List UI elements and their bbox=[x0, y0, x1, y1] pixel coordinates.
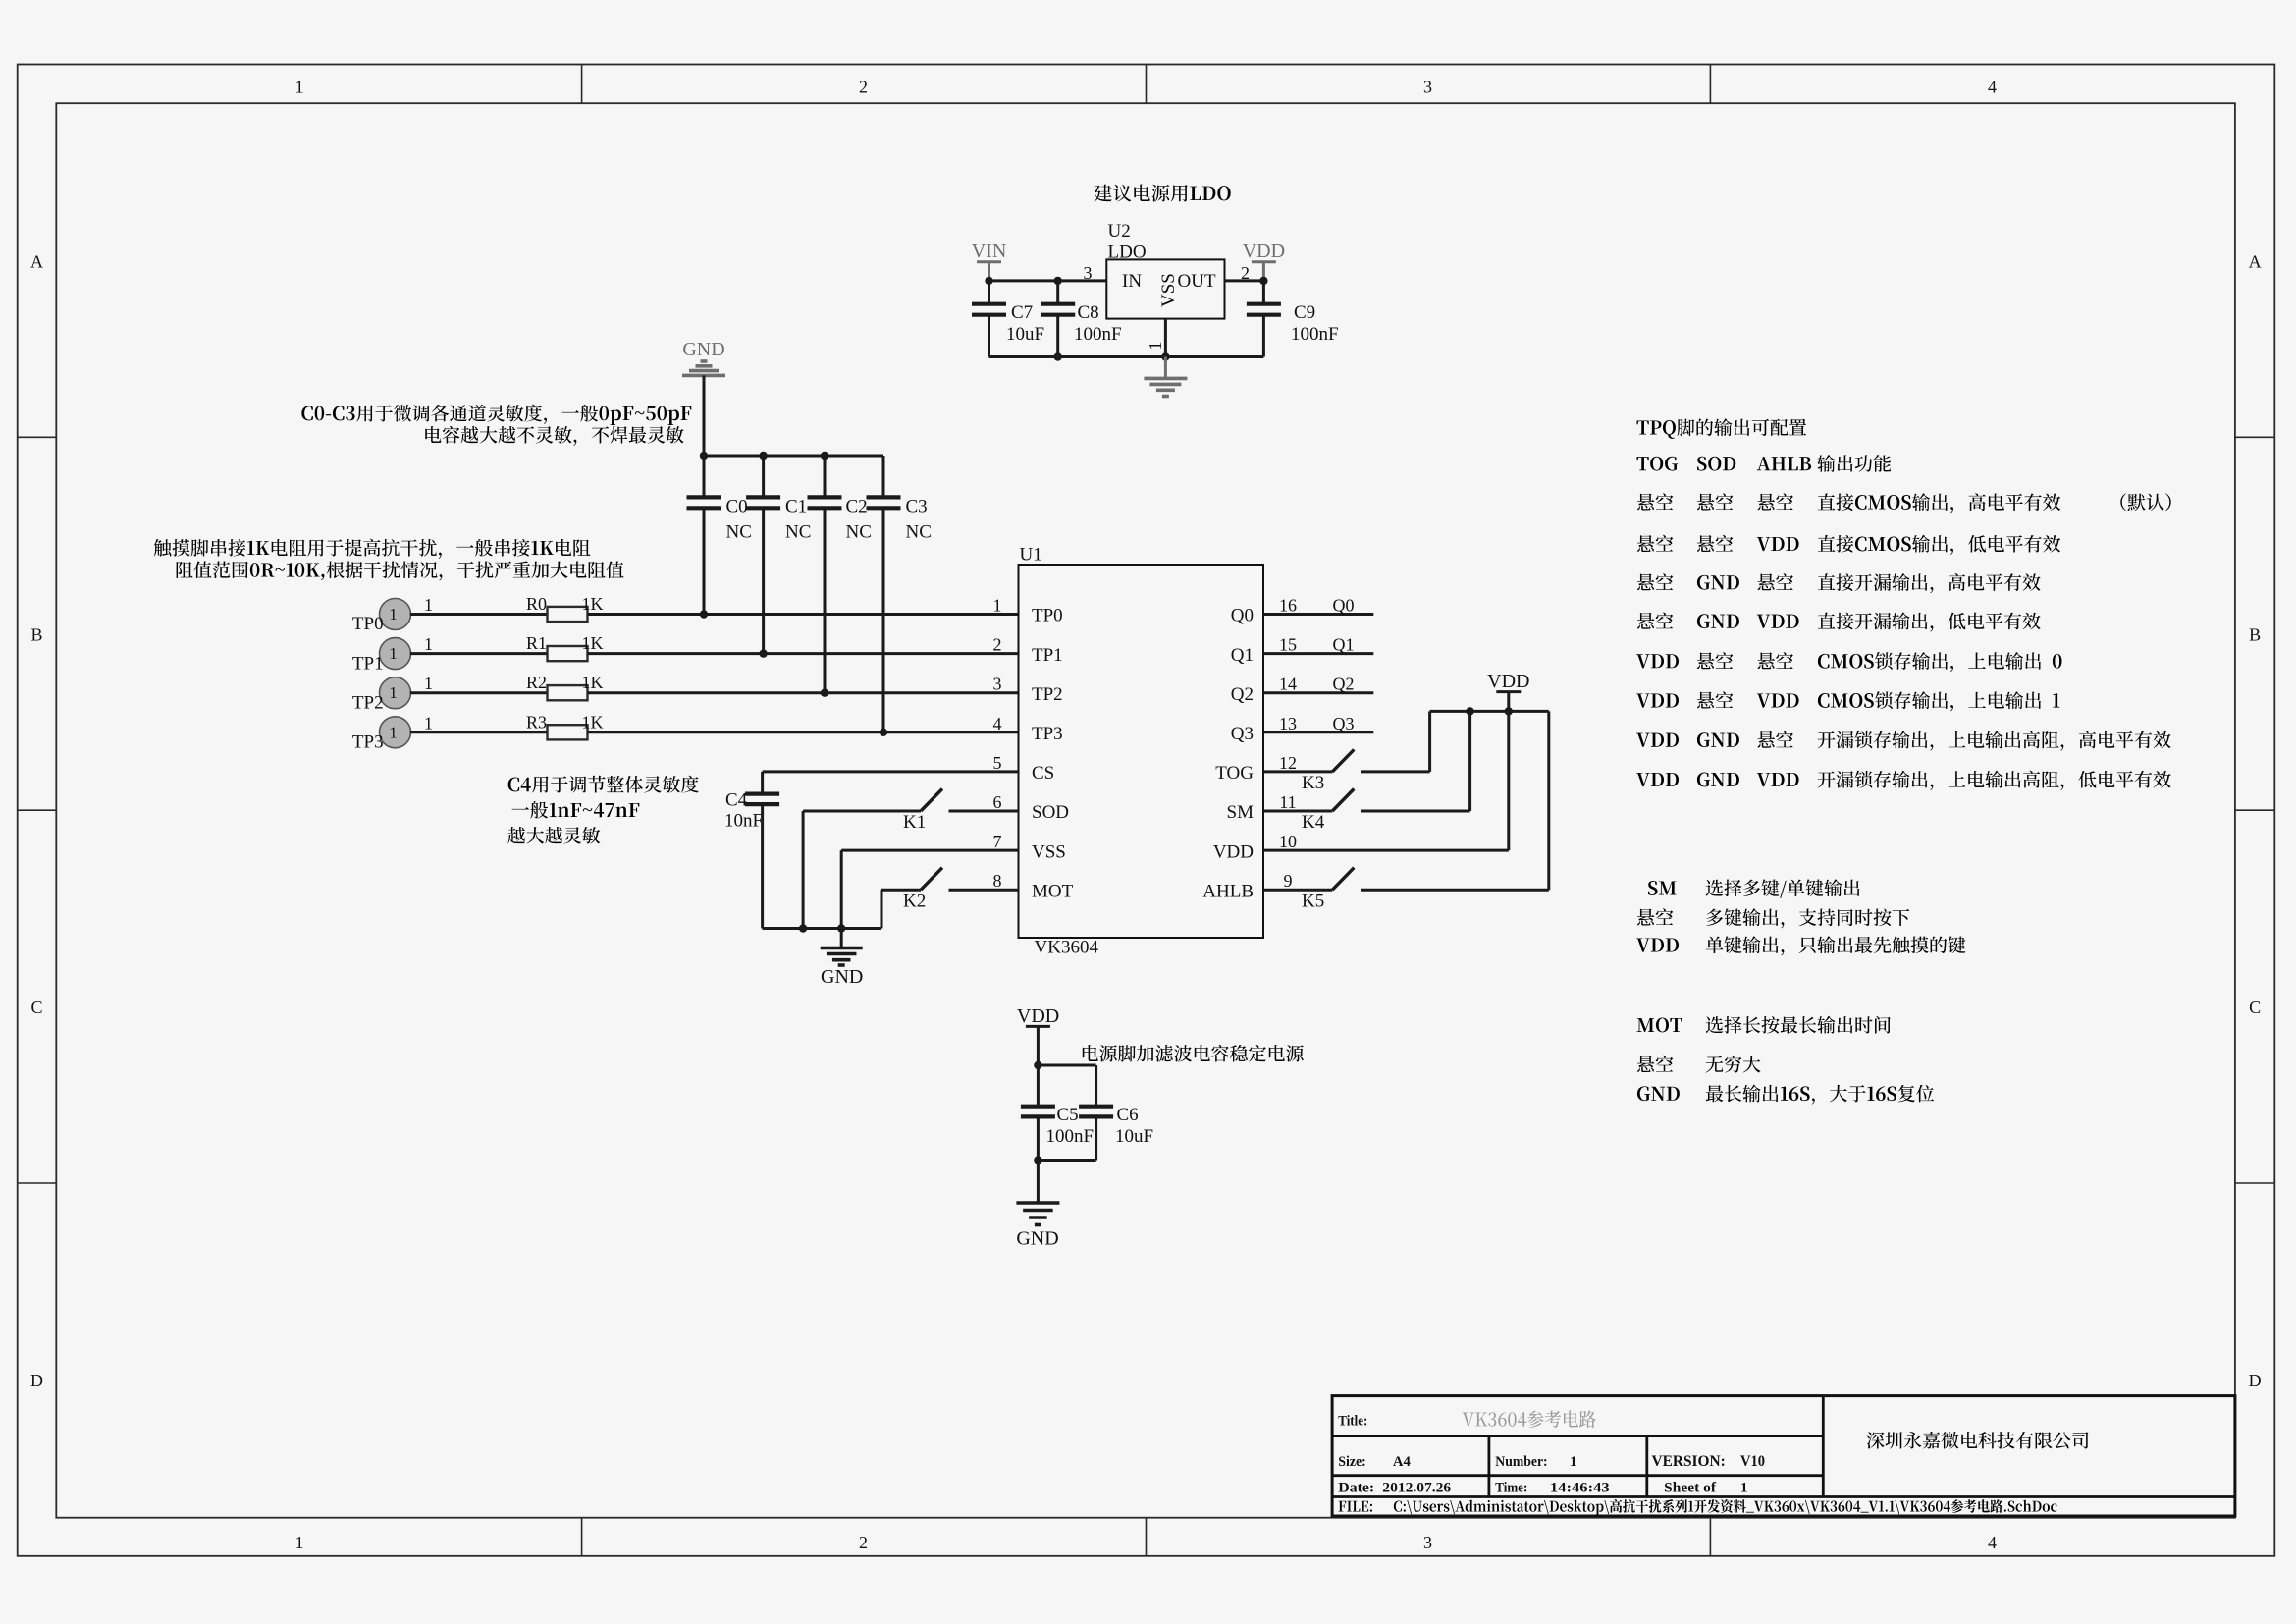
svg-text:14:46:43: 14:46:43 bbox=[1550, 1481, 1610, 1496]
svg-text:K2: K2 bbox=[903, 891, 926, 911]
svg-text:5: 5 bbox=[993, 753, 1002, 773]
svg-text:Q3: Q3 bbox=[1231, 724, 1254, 744]
svg-text:VSS: VSS bbox=[1158, 273, 1179, 307]
svg-text:VDD: VDD bbox=[1213, 841, 1254, 862]
svg-text:V10: V10 bbox=[1740, 1453, 1765, 1470]
svg-text:2: 2 bbox=[859, 1533, 868, 1552]
svg-text:TP3: TP3 bbox=[1032, 724, 1063, 744]
svg-text:7: 7 bbox=[993, 832, 1002, 851]
svg-text:4: 4 bbox=[1988, 78, 1997, 97]
svg-text:C: C bbox=[30, 998, 42, 1017]
svg-text:NC: NC bbox=[906, 522, 932, 543]
svg-text:1: 1 bbox=[993, 596, 1002, 616]
svg-text:10nF: 10nF bbox=[724, 811, 763, 832]
svg-text:100nF: 100nF bbox=[1074, 324, 1122, 345]
svg-text:1: 1 bbox=[424, 713, 433, 732]
svg-text:1: 1 bbox=[389, 723, 398, 741]
svg-text:CS: CS bbox=[1032, 763, 1054, 784]
svg-text:6: 6 bbox=[993, 792, 1002, 812]
svg-text:10: 10 bbox=[1279, 832, 1297, 851]
svg-text:U2: U2 bbox=[1108, 221, 1131, 242]
svg-text:VDD: VDD bbox=[1243, 241, 1285, 262]
svg-text:Sheet of: Sheet of bbox=[1664, 1481, 1717, 1496]
svg-text:1: 1 bbox=[424, 595, 433, 615]
svg-text:9: 9 bbox=[1284, 871, 1293, 891]
svg-text:1: 1 bbox=[424, 674, 433, 693]
svg-text:2: 2 bbox=[859, 78, 868, 97]
svg-text:Size:: Size: bbox=[1338, 1454, 1366, 1470]
svg-text:TP1: TP1 bbox=[1032, 645, 1063, 666]
svg-text:GND: GND bbox=[1016, 1228, 1058, 1250]
svg-text:1K: 1K bbox=[582, 594, 604, 614]
svg-text:12: 12 bbox=[1279, 753, 1297, 773]
svg-text:TP0: TP0 bbox=[1032, 606, 1063, 626]
svg-text:IN: IN bbox=[1122, 271, 1142, 292]
svg-text:1: 1 bbox=[389, 683, 398, 702]
svg-text:Date:: Date: bbox=[1338, 1481, 1374, 1496]
svg-text:VIN: VIN bbox=[972, 241, 1007, 262]
svg-text:10uF: 10uF bbox=[1115, 1126, 1153, 1147]
svg-text:U1: U1 bbox=[1020, 545, 1042, 566]
svg-text:16: 16 bbox=[1279, 596, 1297, 616]
svg-text:1: 1 bbox=[1740, 1481, 1748, 1496]
svg-text:NC: NC bbox=[846, 522, 872, 543]
svg-text:1K: 1K bbox=[582, 712, 604, 731]
svg-text:R1: R1 bbox=[526, 633, 547, 653]
svg-text:MOT: MOT bbox=[1032, 881, 1074, 901]
svg-text:TP1: TP1 bbox=[352, 653, 384, 674]
svg-text:VK3604: VK3604 bbox=[1035, 938, 1099, 958]
svg-text:C7: C7 bbox=[1011, 302, 1033, 323]
svg-text:K1: K1 bbox=[903, 812, 926, 833]
svg-text:1: 1 bbox=[295, 1533, 304, 1552]
svg-text:TP3: TP3 bbox=[352, 732, 384, 753]
svg-text:TP2: TP2 bbox=[352, 692, 384, 713]
svg-text:NC: NC bbox=[726, 522, 752, 543]
svg-text:R3: R3 bbox=[526, 712, 547, 731]
svg-text:D: D bbox=[30, 1371, 43, 1390]
svg-text:Q0: Q0 bbox=[1333, 596, 1355, 616]
svg-text:1: 1 bbox=[295, 78, 304, 97]
svg-text:TP0: TP0 bbox=[352, 614, 384, 634]
svg-text:2012.07.26: 2012.07.26 bbox=[1382, 1481, 1451, 1496]
svg-text:100nF: 100nF bbox=[1291, 324, 1339, 345]
svg-text:SM: SM bbox=[1227, 802, 1255, 823]
svg-text:C3: C3 bbox=[906, 497, 928, 517]
svg-text:K4: K4 bbox=[1302, 812, 1325, 833]
svg-text:3: 3 bbox=[1423, 1533, 1432, 1552]
svg-text:GND: GND bbox=[682, 339, 724, 360]
svg-text:Time:: Time: bbox=[1495, 1481, 1527, 1496]
svg-text:A: A bbox=[30, 251, 43, 271]
svg-text:C4: C4 bbox=[725, 790, 748, 811]
svg-text:C5: C5 bbox=[1057, 1105, 1079, 1125]
svg-text:1: 1 bbox=[389, 644, 398, 663]
svg-text:C2: C2 bbox=[846, 497, 868, 517]
svg-text:C8: C8 bbox=[1078, 302, 1099, 323]
svg-text:R0: R0 bbox=[526, 594, 547, 614]
svg-text:LDO: LDO bbox=[1108, 243, 1147, 263]
svg-text:VERSION:: VERSION: bbox=[1652, 1453, 1726, 1470]
svg-text:1: 1 bbox=[1146, 342, 1165, 351]
svg-text:C6: C6 bbox=[1117, 1105, 1139, 1125]
svg-text:OUT: OUT bbox=[1178, 271, 1216, 292]
svg-text:TOG: TOG bbox=[1215, 763, 1254, 784]
svg-text:A: A bbox=[2249, 251, 2262, 271]
svg-text:K3: K3 bbox=[1302, 773, 1324, 793]
svg-text:3: 3 bbox=[993, 675, 1002, 694]
svg-text:1K: 1K bbox=[582, 633, 604, 653]
svg-text:Number:: Number: bbox=[1495, 1454, 1547, 1470]
svg-text:1: 1 bbox=[1570, 1454, 1577, 1470]
svg-text:Q1: Q1 bbox=[1333, 635, 1355, 655]
svg-text:Q0: Q0 bbox=[1231, 606, 1254, 626]
svg-text:AHLB: AHLB bbox=[1202, 881, 1254, 901]
svg-text:3: 3 bbox=[1423, 78, 1432, 97]
svg-text:15: 15 bbox=[1279, 635, 1297, 655]
svg-text:VDD: VDD bbox=[1017, 1005, 1059, 1027]
svg-text:Q2: Q2 bbox=[1231, 684, 1254, 705]
svg-text:VDD: VDD bbox=[1487, 671, 1529, 692]
svg-text:4: 4 bbox=[1988, 1533, 1997, 1552]
svg-text:GND: GND bbox=[821, 966, 863, 988]
svg-text:Q1: Q1 bbox=[1231, 645, 1254, 666]
svg-text:8: 8 bbox=[993, 871, 1002, 891]
svg-text:VSS: VSS bbox=[1032, 841, 1066, 862]
svg-text:A4: A4 bbox=[1393, 1454, 1411, 1470]
svg-text:SOD: SOD bbox=[1032, 802, 1069, 823]
svg-text:B: B bbox=[2249, 624, 2261, 644]
svg-text:100nF: 100nF bbox=[1046, 1126, 1095, 1147]
svg-text:C: C bbox=[2249, 998, 2261, 1017]
svg-text:1: 1 bbox=[389, 605, 398, 623]
svg-text:NC: NC bbox=[785, 522, 811, 543]
svg-text:2: 2 bbox=[993, 635, 1002, 655]
svg-text:R2: R2 bbox=[526, 673, 547, 692]
svg-text:10uF: 10uF bbox=[1006, 324, 1044, 345]
svg-text:C0: C0 bbox=[726, 497, 748, 517]
svg-text:Q2: Q2 bbox=[1333, 675, 1355, 694]
svg-text:11: 11 bbox=[1279, 792, 1296, 812]
svg-text:4: 4 bbox=[993, 714, 1002, 733]
svg-text:1K: 1K bbox=[582, 673, 604, 692]
svg-text:B: B bbox=[30, 624, 42, 644]
svg-text:C9: C9 bbox=[1294, 302, 1315, 323]
svg-text:14: 14 bbox=[1279, 675, 1297, 694]
svg-text:TP2: TP2 bbox=[1032, 684, 1063, 705]
svg-text:13: 13 bbox=[1279, 714, 1297, 733]
svg-text:Title:: Title: bbox=[1338, 1414, 1367, 1430]
svg-text:K5: K5 bbox=[1302, 891, 1324, 911]
svg-text:D: D bbox=[2249, 1371, 2262, 1390]
svg-text:C1: C1 bbox=[785, 497, 807, 517]
svg-text:1: 1 bbox=[424, 634, 433, 654]
svg-text:Q3: Q3 bbox=[1333, 714, 1355, 733]
